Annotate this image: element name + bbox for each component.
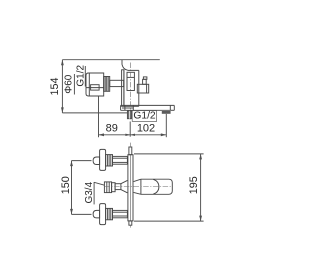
top handle ridges — [106, 155, 113, 166]
handle stem — [110, 80, 124, 86]
cartridge box — [127, 72, 134, 90]
svg-text:102: 102 — [137, 123, 155, 135]
svg-text:195: 195 — [188, 176, 200, 194]
top handle knob — [93, 157, 100, 165]
spout cone — [134, 179, 141, 194]
top curve — [122, 65, 139, 71]
dimension 150 top extension line — [72, 160, 92, 162]
dimension 195 top extension line — [134, 153, 204, 155]
plate top tab — [129, 147, 132, 155]
svg-text:Φ60: Φ60 — [64, 74, 75, 94]
body centerline — [130, 63, 132, 121]
wall plate column — [128, 155, 133, 221]
body column — [124, 70, 139, 106]
plate bottom tab — [129, 221, 132, 225]
side knob body — [137, 84, 148, 93]
svg-text:89: 89 — [106, 123, 118, 135]
dimension 195 line — [199, 154, 202, 221]
spout union nut — [104, 182, 111, 193]
top handle skirt — [100, 149, 106, 170]
bottom handle skirt — [100, 204, 106, 225]
bottom handle pipe — [113, 210, 128, 217]
spout barrel — [141, 179, 172, 194]
svg-text:G1/2: G1/2 — [75, 65, 86, 87]
dimension 102 extension line — [165, 114, 167, 137]
svg-text:154: 154 — [49, 77, 61, 95]
dimension 154 top extension line — [62, 59, 159, 61]
side knob cap — [143, 77, 147, 79]
bottom handle ridges — [106, 208, 113, 219]
dimension 150 line — [70, 161, 73, 215]
spout (side) — [121, 105, 175, 110]
plate top centerline stub — [129, 143, 131, 147]
svg-text:G3/4: G3/4 — [84, 181, 95, 203]
handle bonnet ridges — [104, 77, 110, 92]
side knob stem — [143, 79, 147, 84]
handle knob (side) — [86, 73, 104, 96]
spout inlet fitting — [127, 111, 131, 119]
dimension 154 bottom extension line — [62, 112, 127, 114]
spout union ring — [112, 183, 116, 192]
dimension 89/102 line — [99, 122, 167, 137]
spout wall cone — [121, 180, 128, 192]
bottom handle knob — [93, 210, 100, 218]
plate bottom centerline stub — [129, 225, 131, 227]
svg-text:150: 150 — [60, 176, 72, 194]
spout nose shoulder — [153, 179, 159, 194]
dimension 154 line — [61, 60, 64, 113]
aerator — [162, 111, 171, 114]
wall plate center line — [129, 155, 131, 221]
top handle pipe — [113, 156, 128, 164]
spout union neck — [115, 184, 121, 190]
dimension 195 bottom extension line — [134, 220, 204, 222]
G3/4 leader line — [94, 182, 104, 185]
spout centerline — [104, 186, 172, 188]
escutcheon plate — [122, 70, 124, 107]
svg-text:G1/2: G1/2 — [133, 111, 156, 122]
dimension 150 bottom extension line — [72, 213, 92, 215]
spout end cap — [170, 105, 174, 110]
dimension 89 extension line — [98, 96, 100, 137]
label G1/2 lower box — [132, 111, 156, 122]
top stub — [121, 60, 123, 65]
